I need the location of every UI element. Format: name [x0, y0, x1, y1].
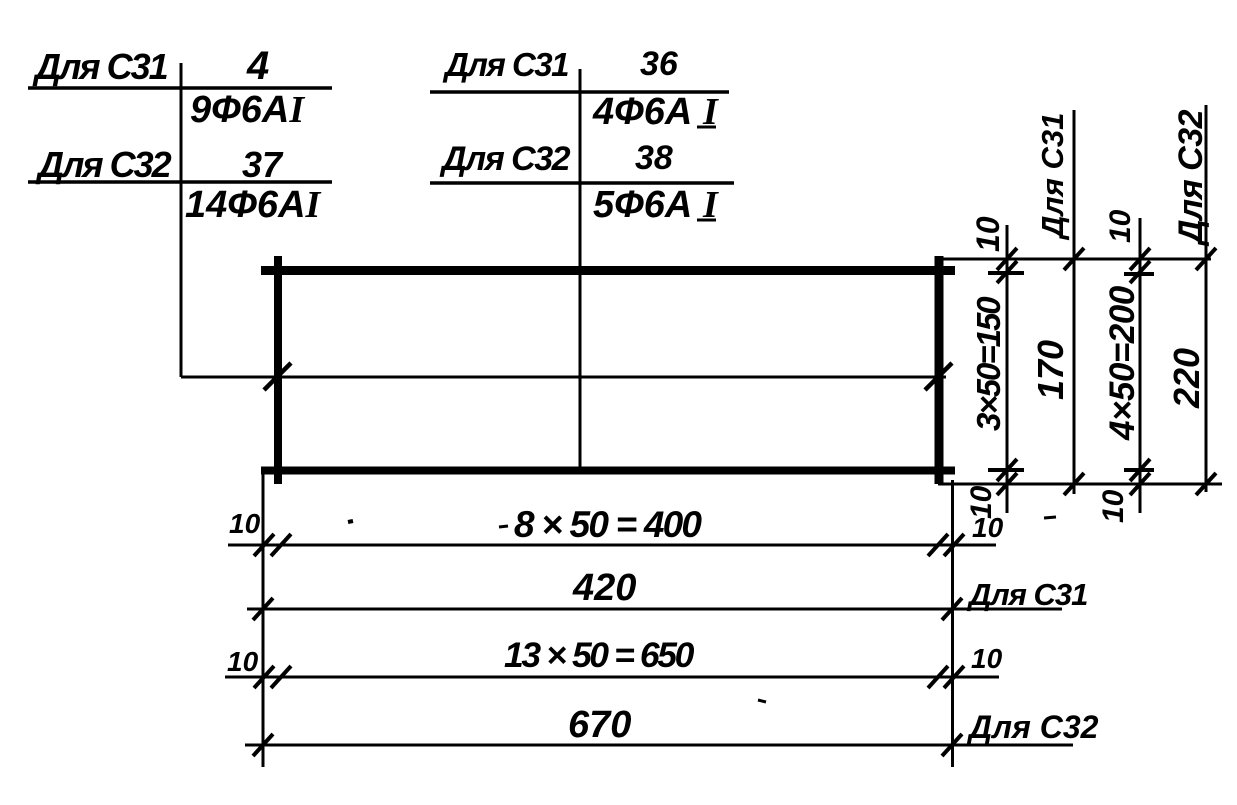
dimension line 220: [1166, 105, 1216, 495]
svg-text:170: 170: [1030, 340, 1071, 400]
callout 2 label Для С32: [439, 140, 571, 178]
svg-text:4: 4: [246, 44, 269, 88]
svg-text:10: 10: [1097, 489, 1130, 523]
callout 1 line 1: [28, 86, 332, 90]
middle longitudinal wire: [181, 363, 952, 390]
svg-text:10: 10: [227, 646, 259, 677]
svg-text:Для С32: Для С32: [35, 144, 172, 185]
leader line callout 1: [180, 63, 183, 377]
right transverse bar: [935, 256, 944, 484]
top longitudinal bar: [261, 266, 955, 275]
callout 1 spec 14Ф6АI: [185, 184, 322, 226]
svg-text:3×50=150: 3×50=150: [970, 296, 1007, 431]
callout 1 spec 9Ф6АI: [190, 89, 305, 131]
svg-text:Для С32: Для С32: [966, 709, 1099, 745]
callout 1 line 2: [28, 180, 332, 184]
callout 2 spec 4Ф6АI: [592, 91, 719, 133]
svg-text:10: 10: [970, 216, 1006, 252]
svg-text:Для С32: Для С32: [439, 140, 571, 178]
svg-text:9Ф6АI: 9Ф6АI: [190, 89, 305, 131]
svg-text:13 × 50 = 650: 13 × 50 = 650: [504, 635, 695, 675]
callout 1 label Для С31: [32, 46, 168, 87]
svg-text:36: 36: [640, 45, 679, 83]
callout 1 position 37: [242, 144, 284, 185]
svg-text:Для С31: Для С31: [966, 577, 1087, 612]
callout 2 position 38: [635, 139, 673, 177]
svg-text:Для С31: Для С31: [442, 46, 568, 83]
callout 2 spec 5Ф6АI: [593, 184, 719, 226]
callout 2 position 36: [640, 45, 679, 83]
dimension chain 13x50=650: [225, 635, 1003, 688]
svg-text:37: 37: [242, 144, 284, 185]
stray dot: [348, 521, 353, 522]
svg-text:420: 420: [572, 567, 636, 609]
stray dash right block: [1044, 517, 1056, 518]
callout 2 line 2: [430, 181, 734, 185]
top extension line right chains: [938, 258, 1211, 261]
bottom extension line right chains: [938, 483, 1222, 486]
svg-text:10: 10: [971, 643, 1003, 674]
svg-text:14Ф6АI: 14Ф6АI: [185, 184, 322, 226]
svg-text:38: 38: [635, 139, 673, 177]
dimension line 170: [1030, 110, 1084, 495]
left transverse bar: [274, 256, 282, 484]
callout 1 position 4: [246, 44, 269, 88]
svg-text:8 × 50 = 400: 8 × 50 = 400: [514, 504, 702, 545]
dimension chain 420: [247, 567, 1087, 620]
dimension line 3x50=150: [965, 216, 1024, 519]
callout 1 label Для С32: [35, 144, 172, 185]
svg-text:Для С32: Для С32: [1172, 109, 1210, 247]
middle transverse wire: [579, 69, 582, 470]
svg-text:670: 670: [568, 704, 631, 746]
dimension line 4x50=200: [1097, 209, 1154, 523]
stray mark left of 8: [499, 526, 508, 527]
left extension line bottom chains: [262, 470, 265, 767]
svg-text:4×50=200: 4×50=200: [1103, 285, 1142, 441]
svg-text:10: 10: [1104, 209, 1137, 243]
bottom longitudinal bar: [261, 467, 955, 475]
stray dash below chain C: [758, 700, 766, 702]
svg-text:Для С31: Для С31: [1035, 113, 1070, 241]
svg-text:10: 10: [965, 485, 998, 519]
dimension chain 670: [245, 704, 1099, 756]
dimension chain 8x50=400: [228, 504, 1004, 556]
svg-text:10: 10: [229, 508, 261, 539]
svg-text:Для С31: Для С31: [32, 46, 168, 87]
right extension line A C: [951, 480, 954, 767]
callout 2 line 1: [430, 90, 729, 94]
callout 2 label Для С31: [442, 46, 568, 83]
svg-text:220: 220: [1166, 348, 1207, 409]
